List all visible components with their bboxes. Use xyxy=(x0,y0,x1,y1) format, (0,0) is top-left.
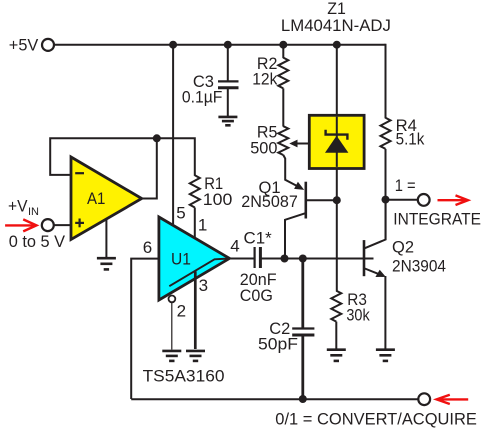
op-amp A1 xyxy=(71,157,142,240)
svg-text:0.1µF: 0.1µF xyxy=(182,88,223,107)
wire R2 top lead xyxy=(282,45,284,59)
svg-text:5.1k: 5.1k xyxy=(396,130,425,149)
svg-text:50pF: 50pF xyxy=(258,335,298,354)
wire R5 to Q1 emitter xyxy=(283,155,298,187)
ground under R3 xyxy=(327,350,346,361)
node junction top B (C3 drop) xyxy=(224,41,232,49)
ground under pin 3 xyxy=(186,351,205,361)
resistor R2 xyxy=(278,58,288,89)
analog switch U1 xyxy=(159,217,230,300)
red input arrow xyxy=(5,219,36,231)
Q2 emitter arrowhead xyxy=(375,270,385,277)
svg-text:TS5A3160: TS5A3160 xyxy=(143,366,225,385)
terminal INTEGRATE xyxy=(418,194,430,206)
wire +5V to C3 xyxy=(227,45,229,82)
plus input symbol xyxy=(75,219,84,228)
node feedback junction xyxy=(153,134,161,142)
wire C1 to Q2 base xyxy=(262,258,374,260)
capacitor C1 xyxy=(255,247,261,268)
wire R2 to R5 xyxy=(282,88,284,126)
svg-text:4: 4 xyxy=(230,237,239,256)
wire +VIN to A1 xyxy=(54,224,71,226)
wire +5V top rail xyxy=(54,44,385,46)
wire U1 pin 6 loop to bottom rail xyxy=(131,259,159,399)
transistor Q1 (2N5087) xyxy=(285,182,337,259)
svg-text:+5V: +5V xyxy=(9,36,39,55)
wire R4 top lead from rail corner xyxy=(385,45,386,119)
svg-text:C0G: C0G xyxy=(240,286,273,305)
resistor R4 xyxy=(381,118,391,149)
svg-text:100: 100 xyxy=(203,190,233,209)
svg-text:1: 1 xyxy=(198,215,207,234)
svg-text:LM4041N-ADJ: LM4041N-ADJ xyxy=(281,16,391,35)
terminal CONVERT/ACQUIRE xyxy=(418,393,430,405)
wire U1 output to C1 xyxy=(230,258,255,260)
resistor R1 xyxy=(190,175,200,207)
wire R1 to U1 pin 1 xyxy=(194,208,196,246)
svg-text:1 =: 1 = xyxy=(395,176,416,195)
red arrow INTEGRATE xyxy=(438,195,469,205)
Q1 emitter arrowhead xyxy=(294,182,304,190)
wire +5V to U1 pin 5 xyxy=(172,45,174,224)
node C2 junction xyxy=(299,255,307,263)
capacitor C3 xyxy=(218,81,239,116)
wire U1 pin 3 to ground xyxy=(194,271,197,349)
node junction top D (Z1 drop) xyxy=(333,41,341,49)
resistor R5 xyxy=(278,126,288,155)
zener diode Z1 xyxy=(325,117,348,167)
svg-text:C1*: C1* xyxy=(244,229,273,248)
svg-text:6: 6 xyxy=(143,238,152,257)
red arrow CONVERT/ACQUIRE xyxy=(437,395,469,404)
svg-text:IN: IN xyxy=(28,206,39,218)
wire to INTEGRATE terminal xyxy=(386,199,418,201)
svg-text:30k: 30k xyxy=(346,305,370,324)
svg-text:Q2: Q2 xyxy=(392,237,414,256)
ground under A1 xyxy=(97,258,116,269)
ground under pin 2 xyxy=(162,351,181,361)
terminal +VIN xyxy=(42,219,54,231)
wire R3 to ground xyxy=(335,322,337,349)
wire A1 feedback loop xyxy=(50,138,195,176)
svg-text:+V: +V xyxy=(8,197,28,216)
node junction top A (pin5 drop) xyxy=(169,41,177,49)
svg-text:INTEGRATE: INTEGRATE xyxy=(393,210,481,229)
svg-text:500: 500 xyxy=(250,139,277,158)
wire bottom rail CONVERT/ACQUIRE xyxy=(131,398,418,400)
wire U1 pin 2 to ground xyxy=(171,302,173,349)
node junction top C (R2 drop) xyxy=(279,41,287,49)
svg-text:0/1 = CONVERT/ACQUIRE: 0/1 = CONVERT/ACQUIRE xyxy=(275,410,477,428)
svg-text:A1: A1 xyxy=(87,189,105,208)
terminal +5V xyxy=(42,39,54,51)
pin 2 inversion circle xyxy=(169,296,176,303)
wire R4 bottom to Q2 collector xyxy=(385,149,387,240)
svg-text:U1: U1 xyxy=(171,250,191,269)
transistor Q2 (2N3904) xyxy=(364,200,386,349)
svg-text:3: 3 xyxy=(199,276,208,295)
resistor R3 xyxy=(331,291,341,322)
svg-text:2: 2 xyxy=(177,302,186,321)
svg-text:5: 5 xyxy=(176,203,185,222)
svg-text:12k: 12k xyxy=(252,69,278,88)
node Q1 base to Z1 junction xyxy=(333,196,341,204)
svg-text:2N3904: 2N3904 xyxy=(392,256,446,275)
node Q1 collector junction xyxy=(281,255,289,263)
ground under C3 xyxy=(218,117,237,125)
minus input symbol xyxy=(75,172,84,174)
svg-text:0 to 5 V: 0 to 5 V xyxy=(9,232,66,251)
wiper arrow of R5 (ADJ) xyxy=(289,140,323,148)
capacitor C2 xyxy=(292,259,314,400)
wire A1 output up to feedback xyxy=(142,138,157,198)
wire A1 ground stem xyxy=(105,220,107,259)
node INTEGRATE junction xyxy=(382,196,390,204)
svg-text:2N5087: 2N5087 xyxy=(241,192,297,211)
ground under Q2 emitter xyxy=(376,350,395,361)
node C2 bottom junction xyxy=(299,395,307,403)
zener box Z1 xyxy=(309,115,364,168)
wire Z1 vertical (+5V down through box to R3) xyxy=(336,45,338,292)
switch arm inside U1 xyxy=(169,259,229,287)
